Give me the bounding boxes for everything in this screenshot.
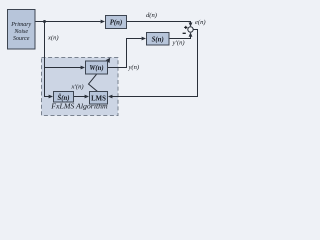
svg-text:Ŝ(n): Ŝ(n) [57,94,69,102]
wire d(n) from P(n) to summer [127,22,191,24]
summer junction [183,26,194,33]
block W(n) [86,61,108,74]
svg-text:e(n): e(n) [195,19,206,26]
wire W(n) output to S(n) [108,39,142,68]
svg-text:Noise: Noise [13,29,28,35]
svg-text:LMS: LMS [91,95,106,102]
block P(n) [106,16,127,29]
svg-text:x(n): x(n) [47,35,59,42]
svg-text:d(n): d(n) [146,12,157,19]
wire e(n) feedback to LMS [112,30,198,97]
block S-hat(n) [54,92,74,103]
block S(n) [147,33,170,46]
block Primary Noise Source [8,10,36,50]
block LMS [90,92,108,105]
wire x(n) vertical down to S-hat input [45,22,50,97]
wire LMS adaptation arrow through W(n) [89,61,108,91]
svg-text:W(n): W(n) [89,65,103,72]
svg-text:y(n): y(n) [128,64,140,71]
svg-text:P(n): P(n) [110,20,122,27]
wire S-hat to LMS [74,96,86,98]
FxLMS dashed region [42,58,119,116]
wire x(n) main horizontal from source to P(n) [35,21,101,23]
svg-text:S(n): S(n) [152,36,164,43]
wire S(n) output up into summer [169,36,191,39]
svg-text:x′(n): x′(n) [71,83,84,90]
wire branch to W(n) input [45,67,82,69]
svg-text:Primary: Primary [10,22,31,28]
node junction x(n) [43,20,46,23]
svg-text:y′(n): y′(n) [172,40,185,47]
svg-text:Source: Source [13,36,30,42]
